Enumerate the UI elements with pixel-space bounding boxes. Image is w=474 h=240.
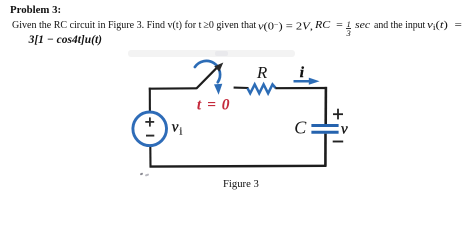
faint speck marks bottom-left of circuit [140, 173, 144, 176]
fraction 1/3 [346, 21, 352, 36]
svg-text:C: C [294, 118, 307, 138]
problem statement line part B1: v(0-) = 2V, [258, 20, 313, 33]
current arrow i (blue) [294, 80, 312, 83]
input expression line [29, 35, 102, 47]
svg-text:R: R [256, 63, 268, 82]
problem statement line part B2: RC = 1/3 sec [315, 20, 370, 31]
switch closing arc arrowhead (blue, pointing down) [214, 84, 222, 95]
wire: top horizontal from corner to switch pivot [149, 87, 197, 89]
switch blade arrowhead (black) [214, 63, 223, 72]
problem statement line part A [12, 20, 256, 31]
wire: left vertical upper (source top to top-left corner) [149, 88, 151, 113]
capacitor polarity minus [333, 141, 344, 143]
problem statement line part B4: vi(t) = [427, 20, 462, 33]
problem heading [10, 6, 61, 16]
source polarity + [145, 117, 154, 126]
svg-text:i: i [180, 127, 183, 138]
voltage source circle (blue) [133, 112, 167, 146]
wire: resistor to top-right corner [275, 87, 327, 89]
capacitor polarity + [333, 109, 343, 120]
svg-text:v: v [172, 119, 179, 135]
capacitor C bottom plate (blue) [311, 131, 338, 134]
wire: bottom horizontal [150, 165, 327, 168]
wire: left vertical lower (source bottom to bottom-left corner) [149, 146, 151, 168]
svg-text:v: v [341, 121, 348, 137]
figure caption [223, 180, 259, 191]
problem statement line part B3: and the input [374, 20, 425, 31]
switch blade (opens up-right) [196, 68, 216, 88]
faint scan smudge band [128, 50, 295, 57]
wire: switch fixed contact to resistor [234, 87, 249, 90]
resistor R (blue zigzag) [248, 84, 276, 93]
wire: right vertical upper (corner to capacitor) [324, 87, 327, 124]
svg-text:i: i [300, 65, 305, 81]
capacitor C top plate (blue) [311, 124, 338, 127]
source polarity minus [146, 135, 154, 137]
svg-text:t = 0: t = 0 [197, 97, 231, 114]
switch closing arc (blue) [195, 61, 220, 82]
wire: right vertical lower (capacitor to bottom-right corner) [324, 134, 327, 167]
